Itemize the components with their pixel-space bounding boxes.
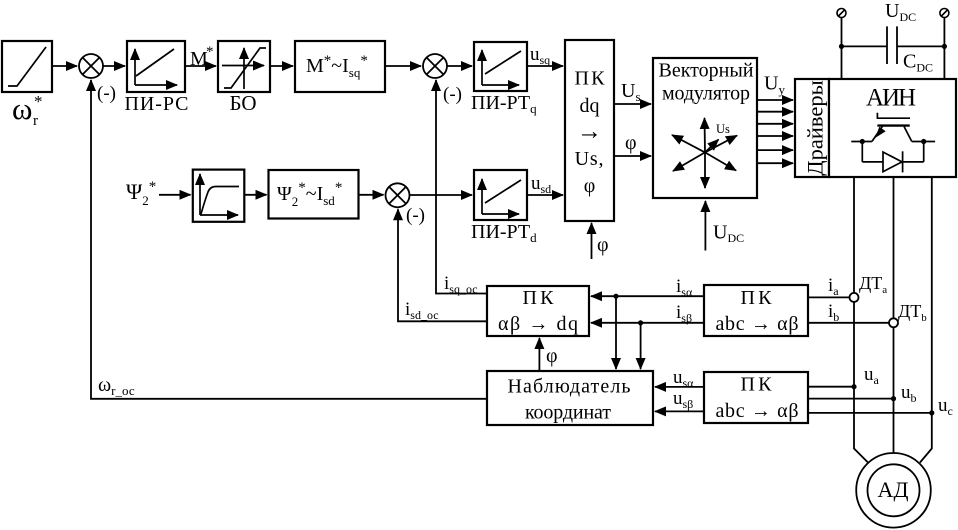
svg-text:CDC: CDC	[903, 51, 933, 75]
svg-text:ua: ua	[864, 364, 880, 387]
svg-text:usα: usα	[673, 367, 694, 390]
svg-text:*: *	[34, 92, 43, 111]
svg-text:Us: Us	[716, 122, 730, 136]
svg-text:φ: φ	[584, 175, 596, 197]
svg-text:isd_ос: isd_ос	[405, 299, 439, 322]
svg-text:ПИ-РС: ПИ-РС	[125, 93, 189, 115]
svg-text:isβ: isβ	[676, 302, 692, 325]
svg-text:isα: isα	[676, 276, 693, 299]
svg-text:Uy: Uy	[764, 73, 785, 98]
svg-text:ПИ-РТq: ПИ-РТq	[471, 92, 537, 116]
svg-text:модулятор: модулятор	[662, 83, 750, 105]
svg-text:dq: dq	[580, 95, 600, 117]
svg-text:БО: БО	[229, 91, 256, 115]
svg-text:ДТb: ДТb	[898, 301, 927, 324]
svg-text:Us: Us	[621, 80, 641, 104]
svg-text:UDC: UDC	[713, 222, 744, 246]
svg-text:usβ: usβ	[673, 388, 693, 411]
svg-text:abc → αβ: abc → αβ	[716, 313, 799, 335]
svg-text:usq: usq	[530, 44, 550, 67]
svg-text:(-): (-)	[97, 83, 116, 104]
svg-text:φ: φ	[625, 132, 637, 154]
svg-text:usd: usd	[531, 173, 551, 196]
svg-text:ia: ia	[828, 275, 839, 298]
svg-text:→: →	[577, 118, 602, 145]
svg-text:ib: ib	[828, 301, 839, 324]
svg-text:Us,: Us,	[575, 148, 605, 170]
svg-text:abc → αβ: abc → αβ	[716, 400, 799, 422]
svg-text:Векторный: Векторный	[659, 60, 754, 82]
svg-text:*: *	[206, 44, 214, 60]
svg-text:(-): (-)	[406, 205, 425, 226]
svg-text:UDC: UDC	[885, 0, 916, 24]
svg-text:Наблюдатель: Наблюдатель	[508, 376, 631, 398]
svg-text:uc: uc	[938, 395, 953, 418]
svg-text:координат: координат	[525, 402, 611, 424]
svg-text:isq_ос: isq_ос	[444, 273, 478, 296]
svg-text:φ: φ	[546, 345, 558, 367]
svg-text:ω: ω	[12, 91, 32, 126]
svg-text:φ: φ	[597, 234, 609, 256]
svg-text:(-): (-)	[443, 84, 462, 105]
svg-text:АИН: АИН	[866, 85, 916, 112]
svg-text:ub: ub	[901, 382, 917, 405]
svg-text:Драйверы: Драйверы	[803, 80, 828, 175]
svg-text:r: r	[33, 113, 38, 129]
svg-text:αβ → dq: αβ → dq	[498, 313, 578, 335]
svg-text:АД: АД	[878, 477, 909, 502]
svg-text:ωr_ос: ωr_ос	[98, 374, 135, 398]
svg-text:ДТa: ДТa	[859, 273, 887, 296]
svg-text:Ψ2*: Ψ2*	[126, 179, 156, 208]
svg-text:ПИ-РТd: ПИ-РТd	[471, 221, 537, 245]
